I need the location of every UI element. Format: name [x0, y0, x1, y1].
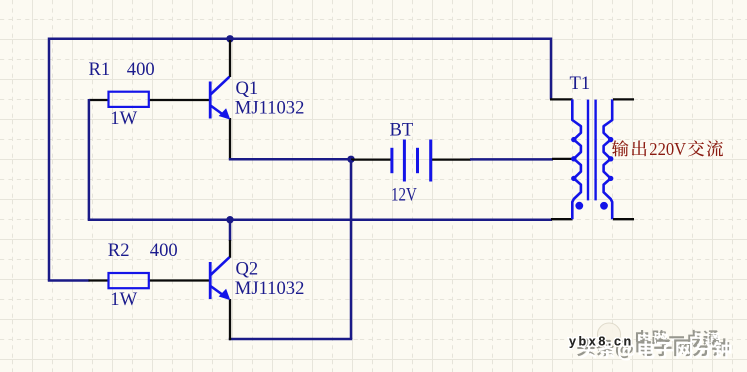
transformer T1 secondary winding	[604, 99, 613, 219]
wire battery left pin	[351, 158, 391, 160]
transistor Q1 MJ11032	[209, 82, 212, 119]
wire middle rail to transformer primary bottom	[88, 218, 552, 221]
wire top rail from left column to transformer	[49, 39, 551, 281]
wire center tap pin	[552, 158, 573, 160]
svg-text:400: 400	[150, 240, 178, 261]
svg-text:MJ11032: MJ11032	[235, 98, 305, 119]
svg-text:T1: T1	[570, 73, 591, 94]
svg-text:1W: 1W	[110, 108, 137, 129]
node junction Q2 collector on middle rail	[226, 216, 233, 223]
watermark logo circle	[598, 323, 621, 346]
wire R2 right pin to Q2 base	[149, 279, 209, 281]
transformer T1 primary winding	[572, 99, 581, 219]
wire transformer primary bottom pin	[551, 218, 573, 220]
transformer T1 core line left	[587, 100, 589, 201]
resistor R2	[109, 273, 149, 288]
node junction Q1 collector to top rail	[226, 35, 233, 42]
wire transformer primary top pin	[550, 98, 573, 100]
wire secondary top pin	[613, 98, 634, 100]
svg-text:R1: R1	[89, 59, 111, 80]
node junction battery minus	[347, 156, 354, 163]
wire battery right pin	[432, 158, 471, 160]
svg-text:400: 400	[127, 59, 155, 80]
svg-text:220V: 220V	[649, 139, 686, 159]
transformer T1 polarity dot primary	[575, 202, 583, 210]
battery BT 12V plates	[390, 148, 393, 173]
svg-text:R2: R2	[108, 240, 130, 261]
transformer T1 secondary cusp joints	[608, 137, 613, 142]
wire bottom return run	[229, 338, 352, 341]
wire Q1 emitter to battery junction	[229, 158, 351, 161]
net label output 220V AC (Chinese)	[612, 139, 723, 159]
wire R2 left pin	[89, 279, 109, 281]
svg-text:ybx8.cn: ybx8.cn	[569, 334, 634, 348]
transformer T1 primary cusp joints	[571, 137, 576, 142]
resistor R1	[109, 92, 149, 107]
wire common emitter return riser	[350, 160, 353, 339]
svg-text:12V: 12V	[391, 185, 417, 206]
wire R2 row from left column	[48, 279, 90, 282]
wire battery to transformer center tap	[470, 158, 553, 161]
svg-text:BT: BT	[390, 120, 414, 141]
wire Q1 emitter pin	[229, 118, 231, 159]
wire Q1 collector pin	[229, 40, 231, 77]
transformer T1 core line right	[594, 100, 596, 201]
wire R1 left pin	[89, 99, 109, 101]
wire secondary bottom pin	[613, 218, 634, 220]
wire R1 left lead down to middle rail	[88, 99, 91, 220]
wire R1 right pin to Q1 base	[149, 99, 209, 101]
svg-text:Q1: Q1	[236, 78, 259, 99]
transistor Q2 MJ11032	[209, 262, 212, 299]
wire Q2 collector riser	[229, 220, 232, 241]
watermark text dianlu yidiantong	[636, 330, 721, 348]
svg-text:1W: 1W	[110, 289, 137, 310]
svg-text:Q2: Q2	[236, 258, 259, 279]
wire Q2 collector pin	[229, 240, 231, 258]
transformer T1 polarity dot secondary	[600, 202, 608, 210]
svg-text:MJ11032: MJ11032	[235, 278, 305, 299]
wire Q2 emitter pin	[229, 299, 231, 340]
watermark text toutiao at dianziwangfenzhong	[577, 338, 731, 360]
